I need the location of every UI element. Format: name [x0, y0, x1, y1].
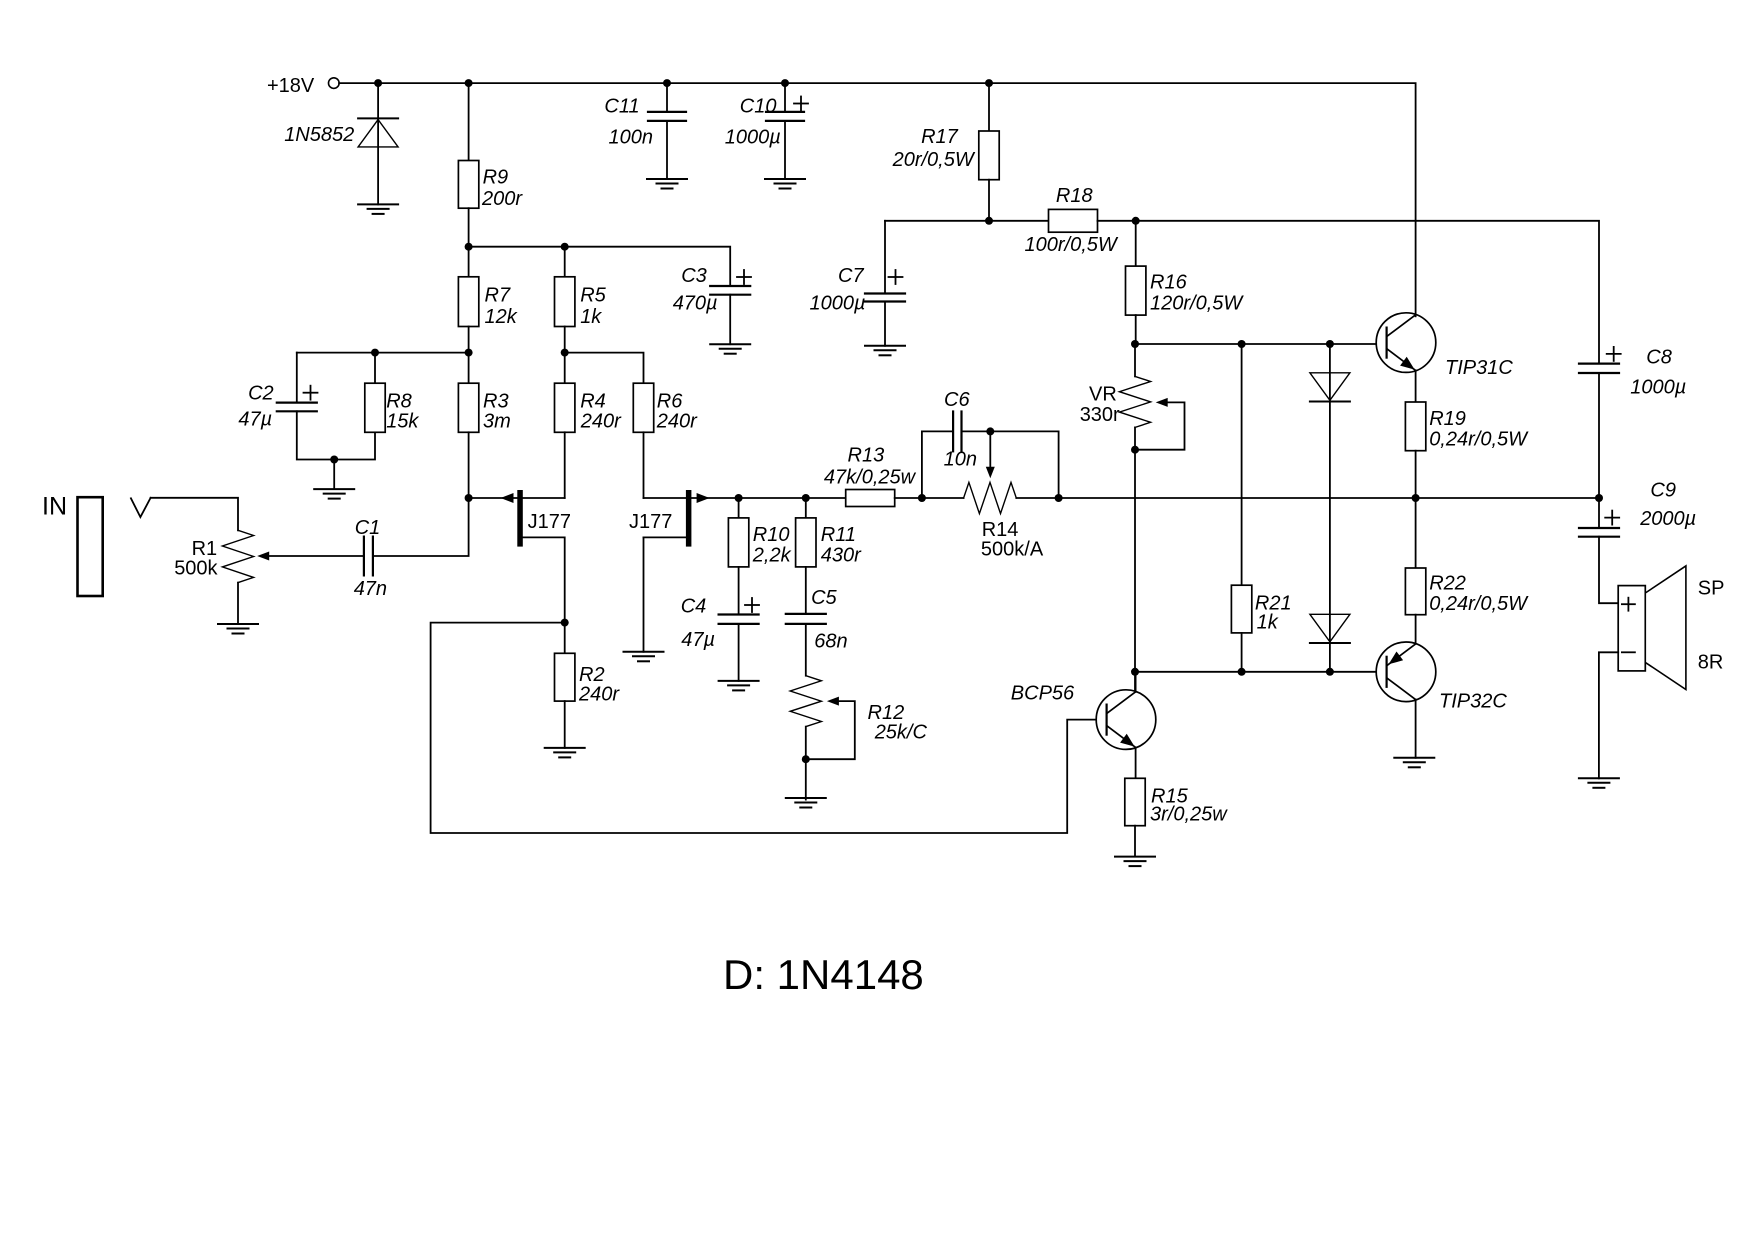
svg-text:C3: C3	[681, 265, 707, 287]
svg-text:R18: R18	[1056, 185, 1093, 207]
svg-text:1k: 1k	[580, 306, 602, 328]
svg-text:R9: R9	[483, 167, 509, 189]
svg-text:R6: R6	[657, 391, 683, 413]
svg-text:C9: C9	[1650, 480, 1676, 502]
svg-text:100n: 100n	[609, 126, 654, 148]
svg-text:10n: 10n	[944, 449, 977, 471]
svg-text:120r/0,5W: 120r/0,5W	[1150, 292, 1244, 314]
svg-text:240r: 240r	[578, 684, 620, 706]
svg-text:47k/0,25w: 47k/0,25w	[824, 467, 917, 489]
svg-text:500k/A: 500k/A	[981, 539, 1044, 561]
svg-text:430r: 430r	[821, 545, 862, 567]
svg-text:8R: 8R	[1698, 652, 1724, 674]
svg-text:VR: VR	[1089, 384, 1117, 406]
svg-text:C2: C2	[248, 383, 274, 405]
svg-text:J177: J177	[528, 511, 571, 533]
svg-text:J177: J177	[629, 511, 672, 533]
svg-text:C6: C6	[944, 389, 970, 411]
svg-text:D: 1N4148: D: 1N4148	[723, 951, 924, 998]
svg-text:C8: C8	[1646, 347, 1672, 369]
svg-text:470µ: 470µ	[673, 293, 718, 315]
svg-text:240r: 240r	[656, 411, 698, 433]
svg-text:68n: 68n	[814, 630, 847, 652]
svg-text:1k: 1k	[1257, 612, 1279, 634]
svg-text:R4: R4	[580, 391, 606, 413]
svg-text:R7: R7	[485, 285, 511, 307]
svg-text:TIP31C: TIP31C	[1445, 357, 1513, 379]
svg-text:R3: R3	[483, 391, 509, 413]
svg-text:R22: R22	[1429, 573, 1466, 595]
svg-text:47µ: 47µ	[681, 629, 715, 651]
svg-text:20r/0,5W: 20r/0,5W	[892, 149, 976, 171]
svg-text:C1: C1	[355, 517, 381, 539]
svg-text:SP: SP	[1698, 578, 1725, 600]
svg-text:R8: R8	[386, 391, 412, 413]
svg-text:330r: 330r	[1080, 404, 1120, 426]
svg-text:500k: 500k	[174, 558, 218, 580]
svg-text:R10: R10	[753, 524, 790, 546]
svg-text:BCP56: BCP56	[1011, 683, 1075, 705]
svg-text:C10: C10	[740, 96, 777, 118]
svg-text:2,2k: 2,2k	[752, 545, 792, 567]
svg-text:25k/C: 25k/C	[874, 722, 928, 744]
svg-text:1000µ: 1000µ	[810, 293, 866, 315]
svg-text:R11: R11	[821, 524, 856, 546]
svg-text:R13: R13	[848, 445, 885, 467]
svg-text:0,24r/0,5W: 0,24r/0,5W	[1429, 429, 1529, 451]
svg-text:R16: R16	[1150, 272, 1188, 294]
svg-text:+18V: +18V	[267, 75, 315, 97]
svg-text:47n: 47n	[354, 578, 387, 600]
svg-text:1000µ: 1000µ	[725, 126, 781, 148]
svg-text:3r/0,25w: 3r/0,25w	[1150, 804, 1228, 826]
svg-text:100r/0,5W: 100r/0,5W	[1025, 234, 1119, 256]
svg-text:15k: 15k	[386, 411, 419, 433]
svg-text:2000µ: 2000µ	[1639, 508, 1696, 530]
svg-text:R17: R17	[921, 126, 959, 148]
svg-text:12k: 12k	[485, 306, 518, 328]
svg-text:1N5852: 1N5852	[284, 124, 354, 146]
svg-text:0,24r/0,5W: 0,24r/0,5W	[1429, 593, 1529, 615]
svg-text:C7: C7	[838, 265, 864, 287]
svg-text:47µ: 47µ	[238, 409, 272, 431]
svg-text:R5: R5	[580, 285, 606, 307]
svg-text:R19: R19	[1429, 408, 1466, 430]
svg-text:240r: 240r	[580, 411, 622, 433]
svg-text:C4: C4	[681, 595, 707, 617]
svg-text:TIP32C: TIP32C	[1439, 691, 1507, 713]
svg-text:IN: IN	[42, 493, 67, 521]
svg-text:1000µ: 1000µ	[1630, 377, 1686, 399]
svg-text:C5: C5	[811, 587, 837, 609]
svg-text:200r: 200r	[481, 188, 523, 210]
svg-text:3m: 3m	[483, 411, 511, 433]
svg-text:C11: C11	[604, 96, 639, 118]
